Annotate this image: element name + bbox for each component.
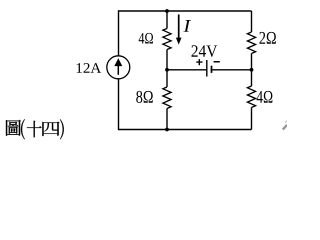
resistor 8ohm	[163, 87, 171, 109]
label 4ohm right	[257, 91, 273, 103]
battery plus sign	[196, 59, 202, 65]
label 12A	[77, 63, 102, 73]
current I arrow	[176, 15, 182, 45]
figure label char shi (ten)	[27, 121, 42, 138]
wire middle branch center	[166, 50, 168, 88]
current source 12A circle	[107, 56, 130, 79]
figure label open paren	[21, 119, 25, 139]
wire right branch lower	[251, 108, 253, 130]
wire middle horizontal right of battery	[211, 69, 252, 71]
wire left branch upper	[118, 10, 120, 56]
node junction bottom middle	[165, 128, 169, 132]
label I current	[183, 20, 191, 32]
label 24V	[191, 45, 217, 57]
figure label char si (four)	[42, 122, 59, 136]
figure label char tu (picture)	[6, 120, 21, 136]
wire middle branch lower	[166, 109, 168, 130]
node junction middle wire right	[250, 68, 254, 72]
current source arrow	[114, 58, 122, 75]
wire right branch upper	[251, 11, 253, 32]
wire top horizontal	[119, 10, 252, 12]
wire bottom horizontal	[119, 129, 252, 131]
label 8ohm	[136, 91, 153, 103]
resistor 2ohm	[247, 32, 255, 54]
battery 24V positive long plate	[206, 60, 208, 77]
wire middle branch upper	[166, 11, 168, 29]
resistor 4ohm middle	[163, 29, 171, 50]
cursor artifact gray arrow right edge	[283, 125, 287, 130]
label 2ohm	[259, 32, 275, 44]
label 4ohm middle	[139, 33, 153, 44]
battery minus sign	[214, 61, 220, 63]
node junction top middle	[165, 9, 169, 13]
battery 24V negative short plate	[211, 66, 213, 73]
figure label close paren	[60, 119, 64, 139]
node junction middle wire left	[165, 68, 169, 72]
wire right branch center	[251, 54, 253, 87]
wire middle horizontal left of battery	[167, 69, 207, 71]
wire left branch lower	[118, 79, 120, 131]
resistor 4ohm right	[247, 86, 255, 108]
